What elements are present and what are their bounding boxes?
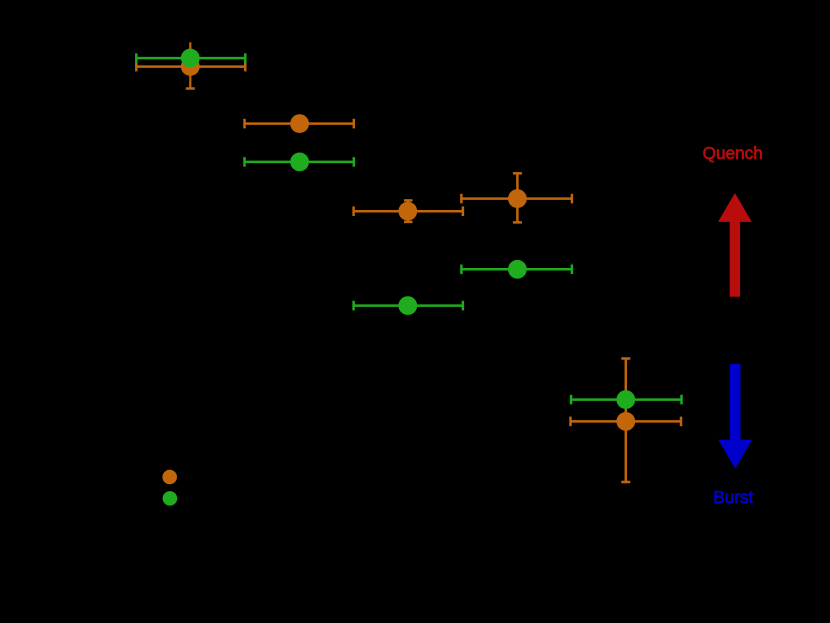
orange point P5 error bars (571, 359, 682, 483)
green point G5 marker (616, 390, 635, 409)
svg-text:Quench: Quench (703, 143, 763, 163)
quench arrow (red, up) (718, 193, 752, 297)
orange point P3 marker (398, 202, 417, 221)
green point G4 error bars (354, 301, 463, 311)
orange point P2 error bars (245, 119, 354, 129)
green point G5 error bars (571, 395, 681, 405)
orange point P4 error bars (461, 173, 572, 222)
green point G1 marker (181, 49, 200, 68)
orange point P2 marker (290, 114, 309, 133)
green point G3 error bars (461, 265, 572, 275)
green point G3 marker (508, 260, 527, 279)
orange point P1 error bars (136, 42, 245, 88)
green point G2 marker (290, 153, 309, 172)
svg-text:Burst: Burst (713, 487, 753, 507)
green legend marker (163, 491, 178, 506)
orange legend marker (162, 470, 177, 485)
green point G4 marker (398, 296, 417, 315)
green point G1 error bars (136, 53, 245, 63)
green point G2 error bars (245, 157, 354, 167)
orange point P4 marker (508, 189, 527, 208)
orange point P3 error bars (354, 200, 463, 222)
burst arrow (blue, down) (718, 364, 752, 469)
orange point P5 marker (616, 412, 635, 431)
orange point P1 marker (181, 57, 200, 76)
